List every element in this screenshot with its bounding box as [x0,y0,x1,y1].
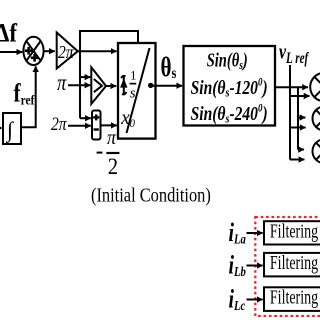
wire branch to plus-minus block [80,117,91,119]
wire A to multiplier 3 [290,159,304,161]
label Filtering b [270,252,318,274]
multiplier circle 3 [313,139,320,163]
wire B to multiplier 2 [298,117,305,119]
label Sin(theta-s -240) [191,102,268,126]
integrator small block [3,113,21,144]
arrowhead into small integrator [0,125,3,132]
label iLb [229,250,246,279]
wire vL ref line A down [289,65,291,160]
label vL ref [279,40,309,66]
label Filtering c [270,286,318,308]
wire gain output to integrator [78,50,117,52]
wire iLc to filter [247,299,263,301]
comparator triangle [91,67,106,104]
svg-text:π: π [107,127,117,150]
wire small integrator to sum (f_ref path) [21,66,36,127]
wire iLa to filter [247,232,263,234]
chevron inside comparator [94,79,102,92]
wire A to multiplier 1 [290,95,310,97]
gain triangle 2pi [57,33,78,69]
svg-text:(Initial Condition): (Initial Condition) [91,184,211,207]
wire B to multiplier 3 [298,149,304,151]
label Delta-f [0,19,18,48]
svg-text:s: s [130,86,136,102]
label 2pi (gain) [58,42,74,62]
svg-text:Δf: Δf [0,19,18,48]
filtering block a [264,221,320,244]
label f_ref [14,80,36,108]
svg-text:Filtering: Filtering [270,286,318,308]
label Filtering a [270,220,318,242]
svg-text:π: π [57,69,67,96]
label x0 [120,106,135,130]
wire 2pi input [68,125,91,127]
wire comparator to integrator [106,85,116,87]
wire sum to gain triangle [44,50,55,52]
wire branch line B down [297,87,299,149]
saturation diagonal [127,48,150,133]
sin block [184,46,276,126]
svg-text:Sin(θs-1200): Sin(θs-1200) [191,76,268,100]
wire integrator output to sin block [151,85,183,87]
wire pi input [68,84,90,86]
wire feedback up-over to integrator top [80,31,138,51]
multiplier circle 1 [310,73,320,102]
svg-text:Filtering: Filtering [270,252,318,274]
svg-text:Filtering: Filtering [270,220,318,242]
label -pi/2 [97,127,120,179]
wire iLb to filter [247,265,263,267]
svg-text:2π: 2π [58,42,74,62]
label Sin(theta-s -120) [191,76,268,100]
label iLa [229,217,246,246]
wire A to multiplier 2 [290,127,306,129]
label iLc [229,284,246,313]
wire sin output main [275,86,308,88]
svg-text:1: 1 [130,68,137,83]
integrator block with saturation [118,43,156,139]
plus sign (bottom input) [31,54,39,62]
label theta-s [161,53,177,83]
label (Initial Condition) [91,184,211,207]
wire gain output branch down [79,51,81,118]
svg-text:Sin(θs-2400): Sin(θs-2400) [191,102,268,126]
wire plus-minus block to integrator [101,124,117,126]
plus-minus block [92,111,101,140]
label 1/s [130,68,137,102]
integral-arrow glyph [120,76,127,95]
filtering block c [264,287,320,311]
multiplier circle 2 [313,107,320,131]
red dashed enclosure [255,217,320,316]
minus sign in block [94,128,99,130]
output dot [148,83,153,88]
svg-text:2π: 2π [51,114,68,135]
wire branch to comparator upper input [80,76,90,78]
svg-text:2: 2 [108,154,118,179]
label 2pi (input) [51,114,68,135]
filtering block b [264,253,320,277]
label pi [57,69,67,96]
wire Delta-f input [0,51,22,53]
label Sin(theta-s) [207,48,248,72]
plus sign (left input) [25,47,33,55]
plus sign in block [93,114,99,120]
summing junction [23,37,43,65]
